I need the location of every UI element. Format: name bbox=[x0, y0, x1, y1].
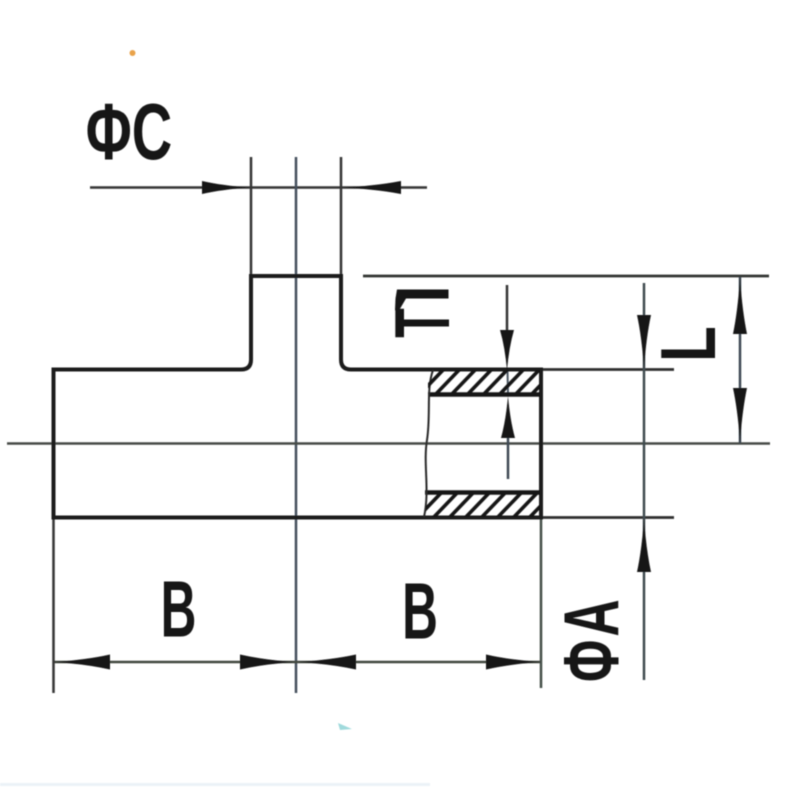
svg-text:B: B bbox=[161, 566, 197, 655]
svg-text:ΦC: ΦC bbox=[86, 86, 172, 176]
svg-text:L: L bbox=[645, 326, 732, 362]
svg-text:B: B bbox=[402, 568, 438, 657]
svg-text:T: T bbox=[378, 308, 466, 338]
svg-text:ΦA: ΦA bbox=[548, 596, 635, 682]
